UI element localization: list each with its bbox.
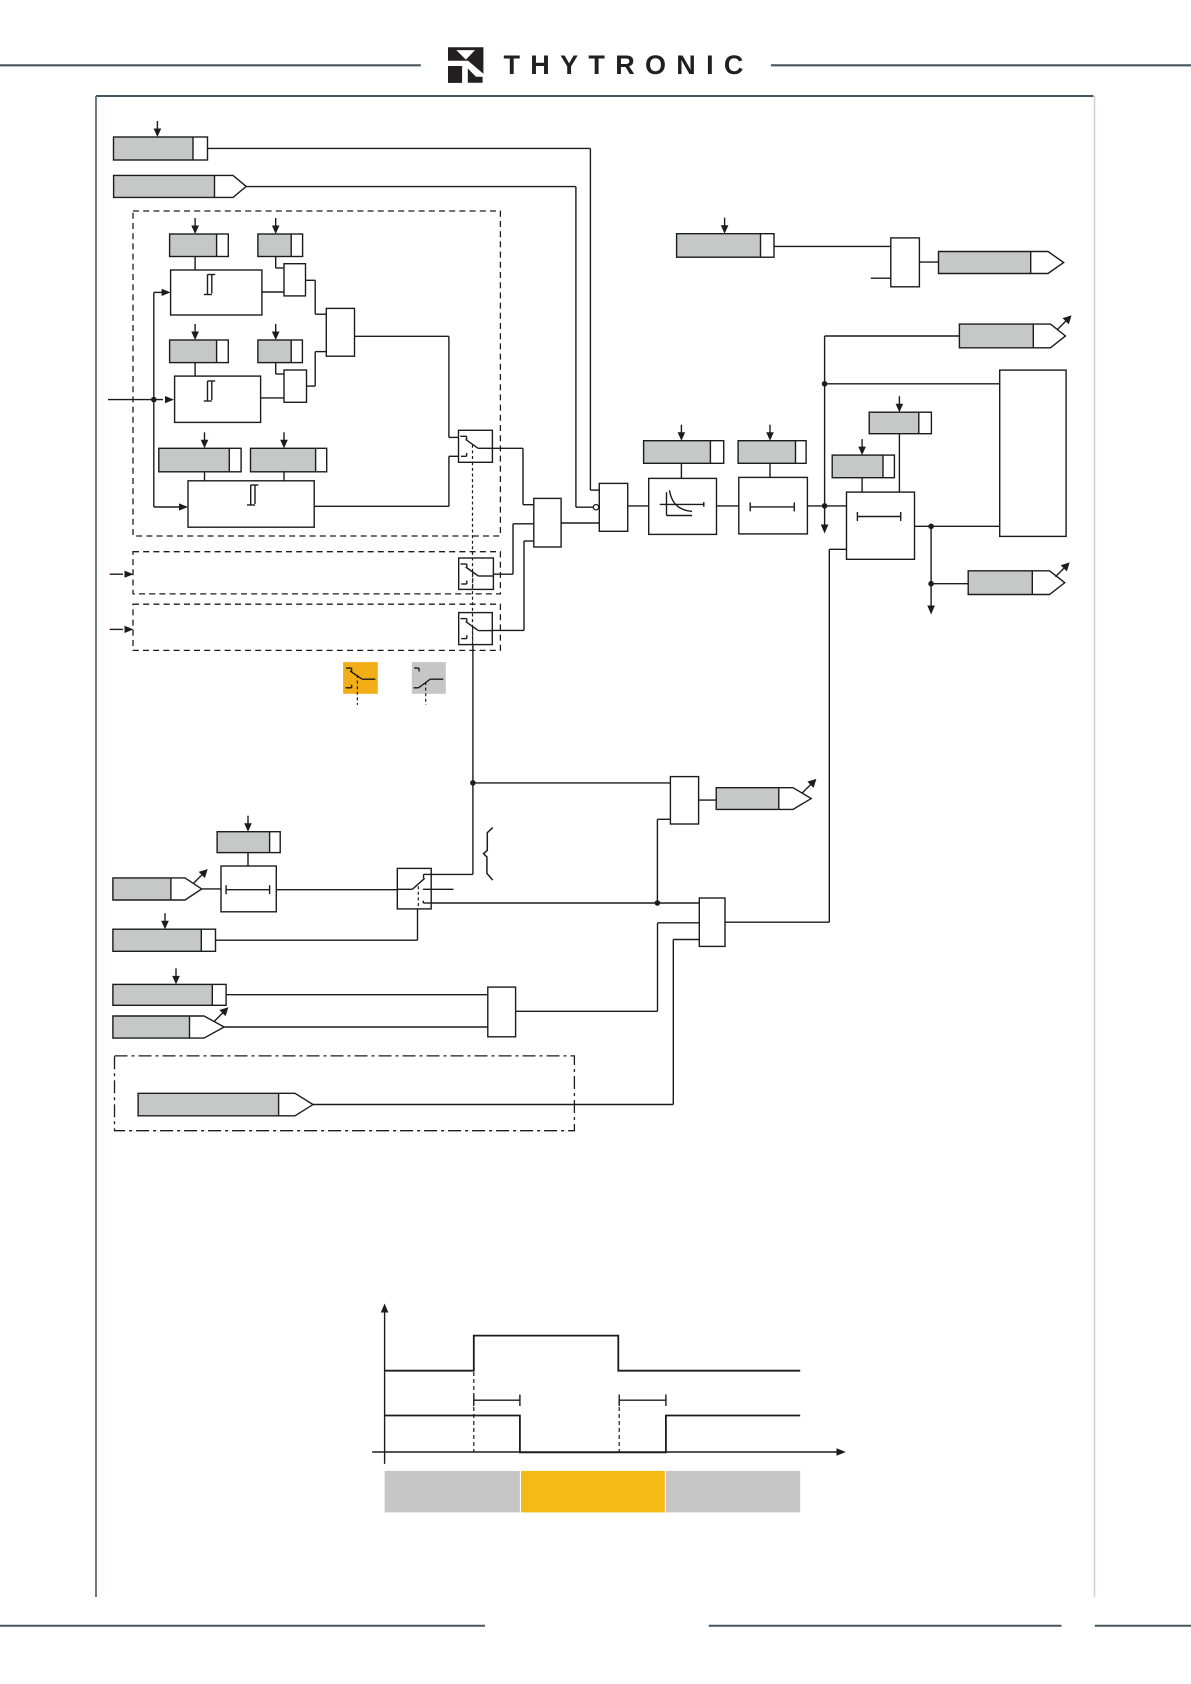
trip rail vertical — [824, 336, 826, 506]
wire N tag to N1 — [224, 1026, 488, 1028]
header rule left — [0, 64, 421, 66]
wire blocking tag to E3 — [313, 940, 699, 1105]
wire E3 to blocking rail — [725, 921, 829, 923]
wire junction to E3 — [657, 902, 699, 904]
dashed box group 2 — [133, 552, 500, 594]
state bar gray left — [385, 1471, 520, 1513]
wire B2 to C2 — [261, 397, 284, 399]
block input tag N — [113, 1016, 224, 1038]
wire blocking rail to I1 — [829, 549, 846, 922]
arrow into A6 — [280, 432, 288, 448]
stub input T1 — [871, 277, 891, 279]
arrow into L1 setting — [244, 816, 252, 832]
control line dotted rail — [472, 462, 474, 644]
delay block L1 — [221, 866, 276, 912]
setting box I1 lower — [832, 455, 894, 478]
AND gate E3 — [699, 898, 725, 946]
branch arrow into B1 — [154, 289, 171, 296]
wire upper setting to I1 — [898, 434, 900, 492]
gate C2 — [284, 370, 307, 402]
wire T1 setting to T1 — [774, 245, 891, 247]
setting box A4 — [258, 340, 303, 363]
wire top box to NOT-AND gate — [208, 148, 600, 490]
down output arrow below junction2 — [927, 584, 935, 615]
wire to trip output tag — [931, 583, 968, 585]
arrow into mode setting — [161, 913, 169, 929]
AND gate E2 — [670, 777, 698, 824]
junction node trip rail — [822, 503, 828, 509]
wire trip rail to start tag — [825, 335, 960, 337]
arrow into A3 — [191, 324, 199, 340]
arrow into A4 — [272, 324, 280, 340]
arrow into T1 setting — [721, 218, 729, 234]
setting box for N1 — [113, 984, 226, 1005]
wire A2 to gate C1 — [276, 257, 284, 269]
setting box for G1 — [644, 441, 724, 464]
wire E2 to blocked tag — [699, 799, 717, 801]
arrow into I1 upper setting — [896, 396, 904, 412]
setting box A5 — [159, 448, 241, 472]
arrow into top setting box — [154, 121, 162, 137]
external blocking tag — [138, 1093, 313, 1116]
setting box for L1 — [217, 832, 280, 853]
junction node I1 out — [928, 524, 934, 530]
wire junction to output matrix J1 — [825, 383, 1000, 385]
wire D1 to switch S1 — [355, 336, 459, 437]
wire F1 to curve block G1 — [628, 505, 649, 507]
definite-time block H1 — [739, 477, 808, 534]
wire A5 to comparator B3 — [204, 472, 206, 481]
wire G1 setting to G1 — [680, 463, 682, 478]
setting box A1 — [170, 234, 229, 257]
arrow into A2 — [272, 218, 280, 234]
wire N1 setting to N1 — [226, 994, 488, 996]
wire L1 setting to L1 — [247, 853, 249, 866]
AND gate F1 — [599, 483, 627, 531]
start output tag — [959, 324, 1065, 348]
signal trace upper — [385, 1336, 801, 1371]
signal trace lower — [385, 1416, 801, 1453]
wire L1 to mode switch M1 — [276, 889, 397, 891]
trip output tag — [968, 571, 1065, 595]
setting box A2 — [258, 234, 303, 257]
state bar orange middle — [521, 1471, 665, 1513]
selector switch S3 — [459, 613, 493, 645]
comparator block B1 — [171, 270, 262, 315]
wire A1 to comparator B1 — [194, 257, 196, 271]
wire E1 to AND gate F1 — [561, 522, 599, 524]
wire B1 to C1 — [262, 291, 284, 293]
mode switch M1 — [397, 868, 431, 909]
dash-dot box external blocking — [115, 1056, 575, 1131]
wire junction2 to matrix J1 — [931, 525, 1000, 527]
setting box for H1 — [738, 441, 806, 464]
junction node M1 path — [655, 900, 661, 906]
arrow into dashed group 2 — [110, 571, 134, 578]
event arrow on N tag — [214, 1007, 228, 1021]
event arrow on blocked tag — [802, 779, 816, 793]
legend switch gray — [412, 662, 446, 705]
event arrow on start tag — [1057, 315, 1071, 329]
brace annotation — [484, 828, 493, 881]
input setting box (top) — [114, 137, 208, 160]
frame top border — [96, 95, 1094, 97]
OR gate D1 — [326, 308, 354, 356]
footer rule left — [0, 1625, 485, 1627]
wire T1 to output tag — [919, 261, 938, 263]
wire lower setting to I1 — [861, 478, 863, 492]
time axis vertical — [381, 1304, 389, 1464]
wire mode setting to M1 — [216, 909, 418, 940]
state bar gray right — [666, 1471, 800, 1513]
wire A6 to comparator B3 — [283, 472, 285, 481]
wire B3 to switch S1 — [314, 456, 458, 506]
wire block tag to inverter bubble — [246, 187, 593, 508]
main analog input wire — [108, 396, 174, 403]
arrow into N1 setting — [172, 968, 180, 984]
wire A3 to comparator B2 — [194, 363, 196, 377]
footer rule right — [1095, 1625, 1191, 1627]
stub M1 mid contact — [431, 888, 453, 890]
arrow into H1 setting — [766, 425, 774, 441]
wire H1 setting to H1 — [769, 463, 771, 477]
wire S2 to OR gate E1 — [493, 524, 533, 574]
wire H1 to junction — [807, 505, 824, 507]
junction2 vertical — [930, 526, 932, 583]
frame right border — [1094, 96, 1096, 1597]
svg-text:THYTRONIC: THYTRONIC — [504, 50, 754, 80]
selector switch S2 — [459, 558, 494, 589]
down output arrow at trip rail — [821, 506, 829, 534]
control rail solid — [472, 645, 474, 875]
arrow into A1 — [191, 218, 199, 234]
junction node trip tag — [928, 581, 934, 587]
wire control rail to AND E2 — [473, 782, 671, 784]
setting box A3 — [170, 340, 229, 363]
wire C2 to OR gate D1 — [307, 352, 327, 387]
arrow into A5 — [201, 432, 209, 448]
setting box I1 upper — [869, 412, 931, 434]
event arrow on block tag — [193, 869, 207, 883]
wire junction to I1 — [825, 505, 847, 507]
setting box A6 — [251, 448, 327, 472]
AND gate N1 — [488, 987, 516, 1037]
wire S3 to OR gate E1 — [492, 541, 534, 630]
wire M1 to control rail — [431, 873, 473, 875]
junction node to matrix — [822, 381, 828, 387]
delay marker 2 — [619, 1395, 666, 1407]
wire C1 to OR gate D1 — [306, 280, 327, 314]
junction node control rail — [470, 780, 476, 786]
comparator block B3 — [188, 481, 314, 527]
gate C1 — [284, 264, 306, 296]
wire block tag to L1 — [202, 888, 221, 890]
input branch rail — [153, 292, 155, 507]
logo icon — [448, 47, 483, 83]
wire I1 to junction2 — [915, 525, 932, 527]
arrow into G1 setting — [678, 425, 686, 441]
wire N1 to E3 — [516, 923, 700, 1012]
dashed marker rise — [473, 1372, 475, 1452]
legend switch orange — [343, 662, 378, 705]
dashed marker fall — [618, 1400, 620, 1452]
timeout output tag — [939, 252, 1064, 274]
OR gate E1 — [534, 498, 561, 547]
arrow into I1 lower setting — [858, 439, 866, 455]
inverter bubble on F1 — [593, 505, 598, 510]
timer block T1 — [891, 238, 920, 287]
reset-time block I1 — [847, 492, 915, 559]
output matrix block J1 — [1000, 370, 1066, 536]
delay marker 1 — [474, 1395, 520, 1407]
footer rule middle — [709, 1625, 1062, 1627]
header rule right — [771, 64, 1191, 66]
comparator block B2 — [175, 376, 261, 422]
inverse-time curve block G1 — [649, 478, 717, 534]
dashed box measuring group — [133, 211, 500, 536]
wire G1 to delay block H1 — [717, 505, 739, 507]
setting box for timer T1 — [677, 234, 774, 258]
branch arrow into B3 — [154, 503, 188, 510]
event arrow on trip tag — [1055, 562, 1069, 576]
wire M1 to AND E3 — [431, 902, 657, 904]
selector switch S1 — [459, 430, 493, 462]
dashed box group 3 — [133, 604, 500, 650]
setting box mode — [113, 929, 216, 951]
block input tag lower — [113, 878, 202, 900]
time axis horizontal — [372, 1448, 846, 1456]
frame left border — [95, 96, 97, 1597]
wire A4 to gate C2 — [276, 363, 284, 374]
wire S1 to OR gate E1 — [492, 448, 533, 504]
wire E2 lower input — [657, 819, 670, 903]
junction input node — [151, 397, 157, 403]
arrow into dashed group 3 — [110, 626, 134, 633]
block input tag — [114, 175, 247, 197]
blocked output tag — [716, 788, 811, 810]
